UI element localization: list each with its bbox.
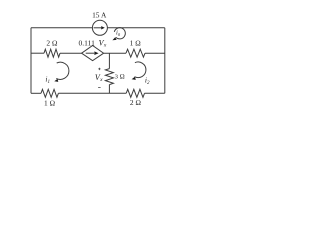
svg-text:15 A: 15 A [92,11,107,20]
svg-text:i0: i0 [116,30,121,37]
svg-text:1 Ω: 1 Ω [130,39,141,48]
svg-text:2 Ω: 2 Ω [46,39,57,48]
svg-text:2 Ω: 2 Ω [130,98,141,107]
svg-text:i2: i2 [145,75,150,86]
svg-text:x: x [103,43,107,49]
svg-text:0.111: 0.111 [79,39,96,48]
svg-text:x: x [99,77,103,83]
svg-text:3 Ω: 3 Ω [115,73,125,80]
svg-text:i1: i1 [45,75,50,86]
svg-text:1 Ω: 1 Ω [44,99,55,108]
